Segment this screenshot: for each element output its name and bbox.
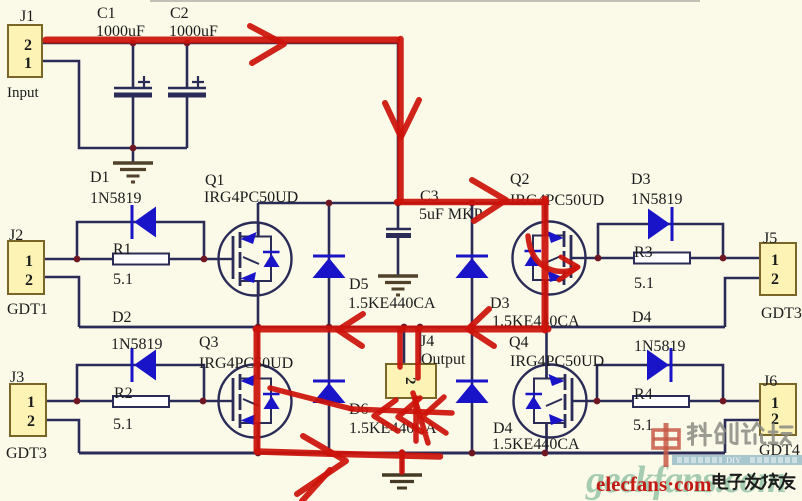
svg-text:J1: J1 xyxy=(20,8,34,25)
svg-text:R3: R3 xyxy=(634,244,653,261)
svg-text:C2: C2 xyxy=(170,5,189,22)
svg-text:D2: D2 xyxy=(112,309,132,326)
svg-text:5.1: 5.1 xyxy=(113,271,133,288)
svg-text:GDT3: GDT3 xyxy=(761,305,802,322)
svg-text:1N5819: 1N5819 xyxy=(111,336,163,353)
svg-text:IRG4PC50UD: IRG4PC50UD xyxy=(204,189,298,206)
svg-text:D4: D4 xyxy=(493,420,513,437)
svg-text:elecfans·com: elecfans·com xyxy=(596,472,712,496)
svg-text:GDT3: GDT3 xyxy=(6,445,47,462)
svg-text:1N5819: 1N5819 xyxy=(634,338,686,355)
svg-text:Input: Input xyxy=(7,85,39,101)
svg-text:1: 1 xyxy=(771,395,779,412)
svg-text:J2: J2 xyxy=(9,227,23,244)
svg-text:1: 1 xyxy=(25,253,33,270)
svg-text:1: 1 xyxy=(24,55,32,72)
svg-text:Q1: Q1 xyxy=(205,172,225,189)
svg-text:D4: D4 xyxy=(632,309,652,326)
svg-text:1: 1 xyxy=(771,252,779,269)
svg-text:DIY: DIY xyxy=(726,455,741,465)
svg-text:D1: D1 xyxy=(90,169,110,186)
svg-text:1.5KE440CA: 1.5KE440CA xyxy=(492,436,580,453)
svg-text:Q2: Q2 xyxy=(510,171,530,188)
svg-text:R1: R1 xyxy=(113,241,132,258)
svg-text:GDT1: GDT1 xyxy=(7,301,48,318)
svg-text:1N5819: 1N5819 xyxy=(90,190,142,207)
svg-text:Q3: Q3 xyxy=(199,334,219,351)
svg-text:R4: R4 xyxy=(634,386,653,403)
svg-text:J3: J3 xyxy=(10,369,24,386)
svg-text:2: 2 xyxy=(24,37,32,54)
svg-text:5.1: 5.1 xyxy=(113,416,133,433)
svg-text:Q4: Q4 xyxy=(509,334,529,351)
svg-text:D5: D5 xyxy=(349,276,369,293)
svg-text:J6: J6 xyxy=(763,373,777,390)
svg-text:IRG4PC50UD: IRG4PC50UD xyxy=(199,355,293,372)
svg-text:2: 2 xyxy=(771,271,779,288)
svg-text:D3: D3 xyxy=(490,295,510,312)
svg-text:5.1: 5.1 xyxy=(633,417,653,434)
svg-text:Output: Output xyxy=(421,351,466,368)
svg-text:J4: J4 xyxy=(420,333,434,350)
svg-text:5.1: 5.1 xyxy=(634,275,654,292)
svg-text:1: 1 xyxy=(27,394,35,411)
svg-text:R2: R2 xyxy=(114,385,133,402)
svg-text:1N5819: 1N5819 xyxy=(631,191,683,208)
svg-text:J5: J5 xyxy=(763,230,777,247)
svg-text:1.5KE440CA: 1.5KE440CA xyxy=(348,295,436,312)
svg-text:IRG4PC50UD: IRG4PC50UD xyxy=(510,353,604,370)
svg-text:D3: D3 xyxy=(631,171,651,188)
svg-text:2: 2 xyxy=(25,272,33,289)
svg-text:C1: C1 xyxy=(97,5,116,22)
svg-text:2: 2 xyxy=(27,413,35,430)
